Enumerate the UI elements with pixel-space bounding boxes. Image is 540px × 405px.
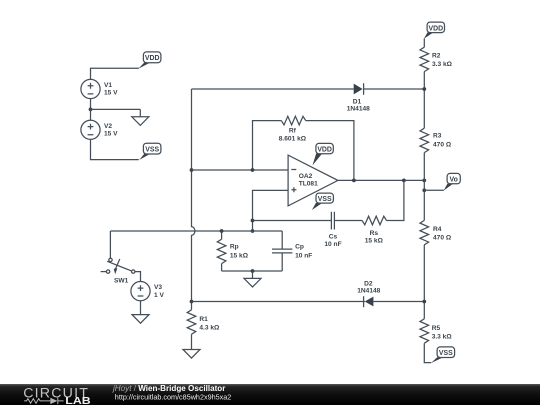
node rail/inverting-input junction — [190, 168, 194, 172]
svg-text:LAB: LAB — [65, 396, 90, 405]
resistor R3 — [420, 128, 452, 152]
wire R2 to R3 — [423, 72, 425, 129]
logo LAB text — [65, 396, 90, 405]
svg-text:Rf: Rf — [289, 128, 297, 135]
node Rp top junction — [220, 229, 224, 233]
wire VDD1 to V1 — [91, 68, 139, 79]
svg-text:R3: R3 — [433, 133, 442, 140]
svg-text:10 nF: 10 nF — [295, 253, 312, 260]
diode D1 — [347, 83, 370, 112]
svg-text:15 kΩ: 15 kΩ — [230, 253, 249, 260]
svg-text:VSS: VSS — [318, 196, 332, 203]
voltage source V3 — [131, 282, 165, 301]
VSS flag (left supply) — [139, 143, 161, 160]
svg-text:1N4148: 1N4148 — [347, 105, 370, 112]
svg-text:VDD: VDD — [429, 25, 444, 32]
resistor R5 — [420, 319, 452, 343]
node D2/rail junction — [422, 300, 426, 304]
wire Rf left lead — [253, 121, 282, 170]
svg-text:3.3 kΩ: 3.3 kΩ — [432, 61, 453, 68]
svg-text:R2: R2 — [432, 52, 441, 59]
wire R4 to R5 — [423, 245, 425, 319]
capacitor Cs — [324, 212, 341, 248]
svg-text:1 V: 1 V — [154, 292, 164, 299]
svg-text:15 kΩ: 15 kΩ — [365, 238, 384, 245]
svg-text:V2: V2 — [104, 123, 112, 130]
node Rf/inverting input junction — [251, 168, 255, 172]
wire Rf right lead down to output — [306, 121, 354, 181]
wire Rp bottom to Cp bottom — [222, 270, 283, 272]
wire R5 to VSS — [424, 343, 431, 362]
wire Rs up to output — [387, 180, 404, 220]
node Vo stub junction — [422, 188, 426, 192]
svg-text:jHoyt / Wien-Bridge Oscillator: jHoyt / Wien-Bridge Oscillator — [112, 384, 226, 393]
Vo flag — [444, 173, 461, 190]
VDD flag (op-amp supply) — [313, 143, 334, 165]
svg-text:TL081: TL081 — [299, 180, 318, 187]
wire switch to V3 — [135, 272, 141, 282]
VSS flag (right rail) — [431, 347, 455, 363]
svg-text:VSS: VSS — [439, 350, 453, 357]
node RC ground junction — [251, 269, 255, 273]
svg-text:Vo: Vo — [450, 177, 458, 184]
resistor R1 — [187, 310, 220, 342]
wire junction to V2 — [90, 109, 92, 120]
node output/Rf junction — [352, 179, 356, 183]
resistor Rs — [362, 216, 386, 244]
svg-text:V3: V3 — [154, 284, 162, 291]
wire op-amp output — [338, 179, 424, 181]
wire D1 cathode — [364, 88, 425, 90]
node junction V1/V2/ground — [89, 108, 93, 112]
wire +input to Cs — [253, 220, 332, 222]
logo resistor zigzag — [24, 399, 50, 404]
wire V2 to VSS flag — [91, 139, 139, 159]
resistor Rp — [217, 231, 248, 271]
VDD flag (left supply) — [138, 52, 161, 69]
title text — [112, 384, 226, 393]
wire junction to ground — [91, 108, 141, 110]
capacitor Cp — [272, 231, 312, 271]
resistor R2 — [420, 47, 453, 71]
ground (V3) — [132, 307, 149, 323]
VDD flag (right rail) — [424, 22, 445, 39]
wire non-inverting input — [253, 190, 289, 231]
svg-text:R4: R4 — [433, 226, 442, 233]
svg-text:SW1: SW1 — [114, 277, 129, 284]
wire V3 to ground — [140, 301, 142, 308]
svg-text:Rs: Rs — [370, 230, 379, 237]
wire VDD to R2 — [423, 39, 425, 48]
svg-text:R5: R5 — [432, 325, 441, 332]
node D1/rail junction — [422, 87, 426, 91]
svg-text:15 V: 15 V — [104, 130, 118, 137]
node +input/Cs junction — [251, 219, 255, 223]
op-amp OA2 TL081 — [288, 155, 338, 206]
logo diode — [50, 398, 63, 404]
wire D2 cathode — [192, 301, 365, 303]
url text — [115, 393, 232, 402]
wire to switch — [109, 231, 111, 258]
footer bar — [0, 384, 540, 405]
node output/rail junction — [422, 179, 426, 183]
svg-text:Rp: Rp — [230, 244, 239, 251]
diode D2 — [357, 281, 380, 308]
node rail/D2/R1 junction — [190, 300, 194, 304]
svg-text:R1: R1 — [199, 316, 208, 323]
node output/Rs junction — [402, 179, 406, 183]
svg-text:Cs: Cs — [329, 233, 338, 240]
svg-text:3.3 kΩ: 3.3 kΩ — [432, 334, 453, 341]
svg-text:10 nF: 10 nF — [324, 241, 341, 248]
svg-text:VDD: VDD — [317, 147, 332, 154]
wire D1 anode — [192, 88, 354, 90]
wire switch node to RpCp rail — [110, 230, 282, 232]
wire V1 to junction — [90, 99, 92, 110]
svg-text:470 Ω: 470 Ω — [433, 141, 452, 148]
resistor R4 — [420, 220, 452, 244]
VSS flag (op-amp supply) — [312, 193, 334, 210]
voltage source V1 — [81, 79, 118, 98]
ground (supply midpoint) — [132, 109, 149, 125]
svg-text:VDD: VDD — [145, 55, 160, 62]
logo CIRCUIT text — [23, 385, 89, 401]
wire left rail with hop over Rp wire — [192, 89, 195, 310]
svg-text:V1: V1 — [104, 82, 112, 89]
svg-text:1N4148: 1N4148 — [357, 287, 380, 294]
resistor Rf — [279, 116, 307, 142]
ground (Rp Cp) — [244, 271, 261, 287]
node +input/RpCp junction — [251, 229, 255, 233]
voltage source V2 — [81, 120, 118, 139]
switch SW1 — [101, 258, 135, 284]
svg-text:http://circuitlab.com/c85wh2x9: http://circuitlab.com/c85wh2x9h5xa2 — [115, 393, 232, 402]
svg-text:15 V: 15 V — [104, 90, 118, 97]
svg-text:470 Ω: 470 Ω — [433, 235, 452, 242]
wire Vo stub — [424, 189, 444, 191]
wire D2 anode — [373, 301, 424, 303]
svg-text:VSS: VSS — [145, 147, 159, 154]
svg-text:Cp: Cp — [295, 244, 304, 251]
svg-text:4.3 kΩ: 4.3 kΩ — [199, 324, 220, 331]
svg-text:8.601 kΩ: 8.601 kΩ — [279, 135, 307, 142]
wire Cs to Rs — [334, 220, 362, 222]
wire R3 to R4 — [423, 153, 425, 221]
svg-text:OA2: OA2 — [299, 173, 313, 180]
wire inverting input — [192, 169, 289, 171]
ground (R1) — [183, 342, 200, 358]
